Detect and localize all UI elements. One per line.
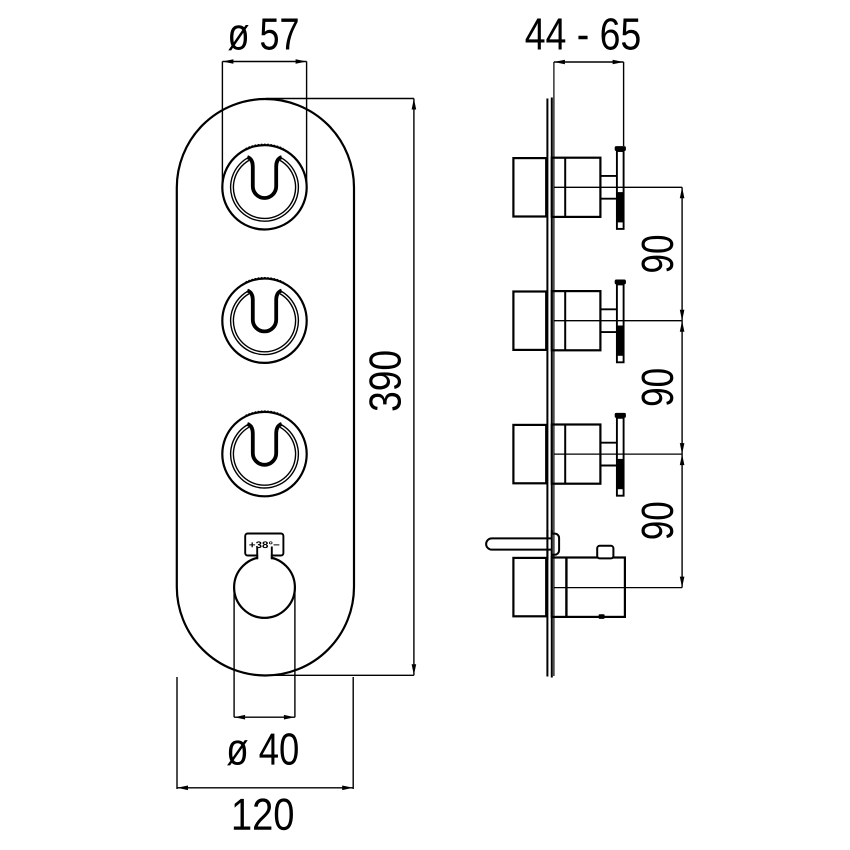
390 bottom arrowhead: [412, 664, 417, 675]
390 dimension line: [413, 99, 415, 676]
44-65 right extension line (handle face): [623, 62, 625, 146]
front view: mounting plate (stadium outline): [177, 99, 354, 676]
side view: bottom leader line: [554, 587, 682, 589]
temperature knob knurl (bottom arc): [251, 615, 279, 618]
44-65 dimension line: [554, 61, 624, 63]
dimension extension line (wall face, 44-65 left): [553, 62, 555, 676]
390 top leader line: [266, 98, 414, 100]
knob 3 (lower control, front view): [222, 411, 306, 496]
side view: lever hub: [552, 534, 560, 555]
side view: wall plate back line: [546, 99, 548, 677]
dimension text o57: [228, 19, 297, 51]
dimension o40 (temperature knob): [234, 587, 295, 719]
side view: thermostat valve body (behind wall): [513, 558, 546, 616]
120 right extension line: [352, 677, 354, 789]
120 right arrowhead: [342, 786, 353, 791]
dimension 90 chain (knob spacing): [680, 187, 685, 587]
90 chain dimension line: [681, 187, 683, 587]
dimension text 390 (rotated): [369, 351, 401, 410]
temperature label text +38: [249, 541, 279, 548]
side view: set screw mark: [599, 614, 605, 619]
side view: plate front line redraw over lever: [551, 530, 553, 558]
dimension text 44-65: [526, 18, 640, 50]
90 chain arrowhead down at knob 2: [680, 310, 685, 321]
o40 right arrowhead: [284, 715, 295, 720]
o57 right extension line: [306, 62, 308, 192]
side view: thermostat front body: [552, 558, 625, 617]
dimension 390 (height of plate): [263, 99, 416, 676]
side view: knob assembly 1: [513, 146, 682, 229]
90 chain arrowhead up at knob 3: [680, 454, 685, 465]
side view: thermostat override button: [597, 546, 613, 559]
dimension 44-65 (depth range): [554, 60, 624, 146]
44-65 left arrowhead: [554, 60, 565, 65]
side view: temperature lever: [486, 538, 552, 549]
120 dimension line: [177, 787, 353, 789]
o40 dimension line: [234, 716, 295, 718]
dimension o57 (top of front view): [222, 59, 306, 191]
120 left extension line: [176, 677, 178, 789]
390 top arrowhead: [412, 99, 417, 110]
temperature knob tab: [258, 548, 271, 559]
120 left arrowhead: [177, 786, 188, 791]
o40 right extension line: [294, 587, 296, 717]
side view: wall plate front line: [551, 98, 553, 678]
temperature knob (front view, o40): [234, 557, 295, 618]
390 bottom leader line: [263, 674, 414, 676]
o57 left arrowhead: [222, 59, 233, 64]
side view: plate back line redraw over lever: [546, 530, 548, 560]
dimension 120 (width of plate): [177, 677, 353, 790]
knob 2 (middle control, front view): [222, 277, 306, 362]
o40 left extension line: [233, 587, 235, 717]
44-65 right arrowhead: [613, 60, 624, 65]
knob 1 (top control, front view): [222, 144, 306, 229]
dimension text 90 middle (rotated): [641, 369, 673, 405]
o57 left extension line: [221, 62, 223, 192]
o40 left arrowhead: [234, 715, 245, 720]
dimension text 120: [234, 798, 293, 830]
90 chain arrowhead up at knob 1: [680, 187, 685, 198]
dimension text 90 lower (rotated): [641, 503, 673, 539]
90 chain arrowhead down at knob 3: [680, 443, 685, 454]
side view: thermostat body base line: [565, 558, 567, 617]
90 chain arrowhead down at thermostat: [680, 577, 685, 588]
90 chain arrowhead up at knob 2: [680, 321, 685, 332]
o57 right arrowhead: [296, 59, 307, 64]
o57 dimension line: [222, 61, 306, 63]
dimension text 90 upper (rotated): [641, 236, 673, 272]
side view: knob assembly 3: [513, 413, 682, 496]
dimension text o40: [227, 733, 298, 765]
temperature label plate (+38): [245, 534, 283, 556]
side view: knob assembly 2: [513, 280, 682, 363]
